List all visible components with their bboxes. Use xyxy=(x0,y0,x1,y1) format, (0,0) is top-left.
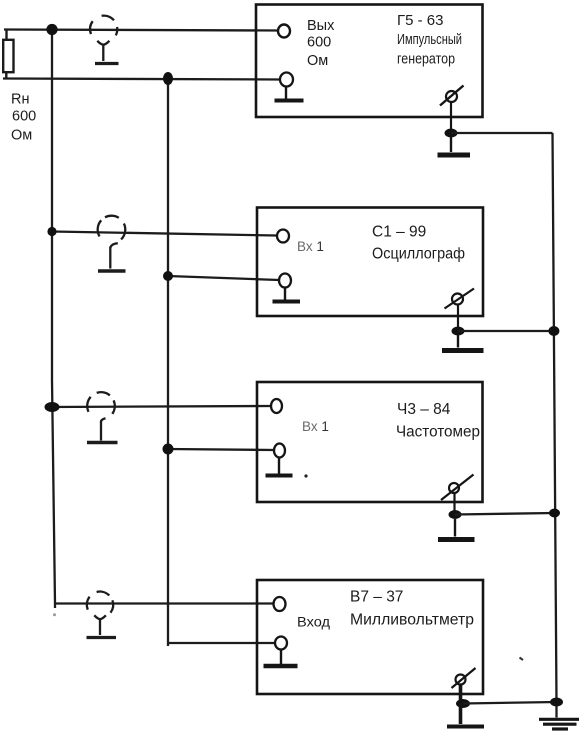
node U2 chassis junction xyxy=(452,327,465,336)
svg-text:600: 600 xyxy=(307,35,331,51)
svg-text:Ом: Ом xyxy=(11,128,32,144)
resistor Rн 600 Ом xyxy=(3,30,13,79)
wire row3 upper (left bus to Ch3-84 input) xyxy=(51,406,271,407)
wire row1 lower (resistor to G5-63 ground terminal) xyxy=(3,79,280,80)
node U1 chassis junction xyxy=(445,129,458,138)
U2 terminal Вх1 xyxy=(277,230,289,243)
U2 internal ground symbol xyxy=(273,288,301,302)
ground U4 (bar) xyxy=(447,703,484,727)
U3 chassis terminal (circle with slash) xyxy=(441,475,474,515)
svg-text:Милливольтметр: Милливольтметр xyxy=(350,612,474,629)
wire U3 chassis to right bus xyxy=(455,513,554,515)
instrument U4 box В7-37 xyxy=(257,580,483,694)
svg-text:Ч3 – 84: Ч3 – 84 xyxy=(397,401,451,418)
U1 terminal Вых xyxy=(278,25,290,38)
svg-text:Вых: Вых xyxy=(307,18,335,34)
instrument U1 box Г5-63 xyxy=(256,5,483,118)
svg-text:Вх 1: Вх 1 xyxy=(297,239,324,254)
wire row2 upper (left bus to C1-99 input) xyxy=(52,232,277,236)
wire U4 chassis to right bus xyxy=(463,702,557,704)
svg-text:генератор: генератор xyxy=(397,51,455,68)
U2 chassis terminal (circle with slash) xyxy=(445,289,475,332)
ground U3 (bar) xyxy=(438,519,475,540)
U1 terminal ground xyxy=(280,73,293,87)
node junction middle bus row3 xyxy=(163,444,174,455)
svg-text:Вх 1: Вх 1 xyxy=(302,419,329,434)
U1 internal ground symbol xyxy=(275,87,304,101)
wire U1 chassis to right bus xyxy=(451,132,553,134)
U4 terminal Вход xyxy=(274,597,286,611)
svg-text:Вход: Вход xyxy=(297,615,330,630)
node junction middle bus row2 xyxy=(163,271,173,281)
svg-text:Частотомер: Частотомер xyxy=(396,424,480,441)
wire left bus vertical xyxy=(52,30,55,609)
U3 terminal Вх1 xyxy=(271,399,282,413)
U4 terminal ground xyxy=(275,637,287,650)
wire middle bus vertical xyxy=(167,79,169,647)
wire row1 upper (resistor to G5-63 output) xyxy=(4,30,278,31)
node junction middle bus row1 xyxy=(163,72,173,85)
wire row4 upper (left bus corner to V7-37 input) xyxy=(55,602,273,604)
earth ground (three bars) xyxy=(539,719,579,729)
svg-text:Осциллограф: Осциллограф xyxy=(372,246,465,263)
node right bus bottom xyxy=(550,698,563,707)
svg-text:Импульсный: Импульсный xyxy=(397,31,462,48)
U3 internal ground symbol xyxy=(266,458,293,476)
instrument U2 box С1-99 xyxy=(257,208,483,317)
connector XW1 (coax plug, row1) xyxy=(90,16,118,64)
svg-text:Ом: Ом xyxy=(307,53,328,69)
ground U1 (bar) xyxy=(438,137,471,155)
wire row4 lower (middle bus corner to V7-37 ground terminal) xyxy=(168,642,275,644)
svg-text:В7 – 37: В7 – 37 xyxy=(350,589,403,606)
connector XW2 (coax plug, row2) xyxy=(98,216,126,271)
node junction left bus row2 xyxy=(47,227,56,236)
node right bus row2 xyxy=(548,326,559,336)
U4 stray tick xyxy=(520,658,524,661)
connector XW4 (coax plug, row4) xyxy=(87,592,117,638)
instrument U3 box Ч3-84 xyxy=(257,382,483,502)
svg-text:С1 – 99: С1 – 99 xyxy=(372,224,426,241)
wire right bus vertical xyxy=(553,133,557,718)
wire U2 chassis to right bus xyxy=(458,330,554,332)
node U3 chassis junction xyxy=(449,510,462,519)
node U4 chassis junction xyxy=(456,699,470,708)
U4 internal ground symbol xyxy=(264,650,298,667)
U2 terminal ground xyxy=(279,274,291,288)
node junction left bus row1 xyxy=(46,24,57,35)
U1 chassis terminal (circle with slash) xyxy=(440,86,464,134)
node right bus row3 xyxy=(549,509,560,518)
stray speck below left bus corner xyxy=(53,613,56,616)
node junction left bus row3 xyxy=(45,402,60,412)
svg-text:600: 600 xyxy=(12,108,36,124)
wire row2 lower (middle bus to C1-99 ground terminal) xyxy=(168,276,279,280)
svg-text:Г5 - 63: Г5 - 63 xyxy=(397,12,443,29)
svg-text:Rн: Rн xyxy=(11,92,29,108)
connector XW3 (coax plug, row3) xyxy=(87,392,118,442)
ground U2 (bar) xyxy=(442,335,484,351)
U3 stray dot xyxy=(304,474,307,477)
U4 chassis terminal (circle with slash) xyxy=(452,668,476,703)
wire row3 lower (middle bus to Ch3-84 ground terminal) xyxy=(168,449,274,450)
U3 terminal ground xyxy=(274,444,285,458)
